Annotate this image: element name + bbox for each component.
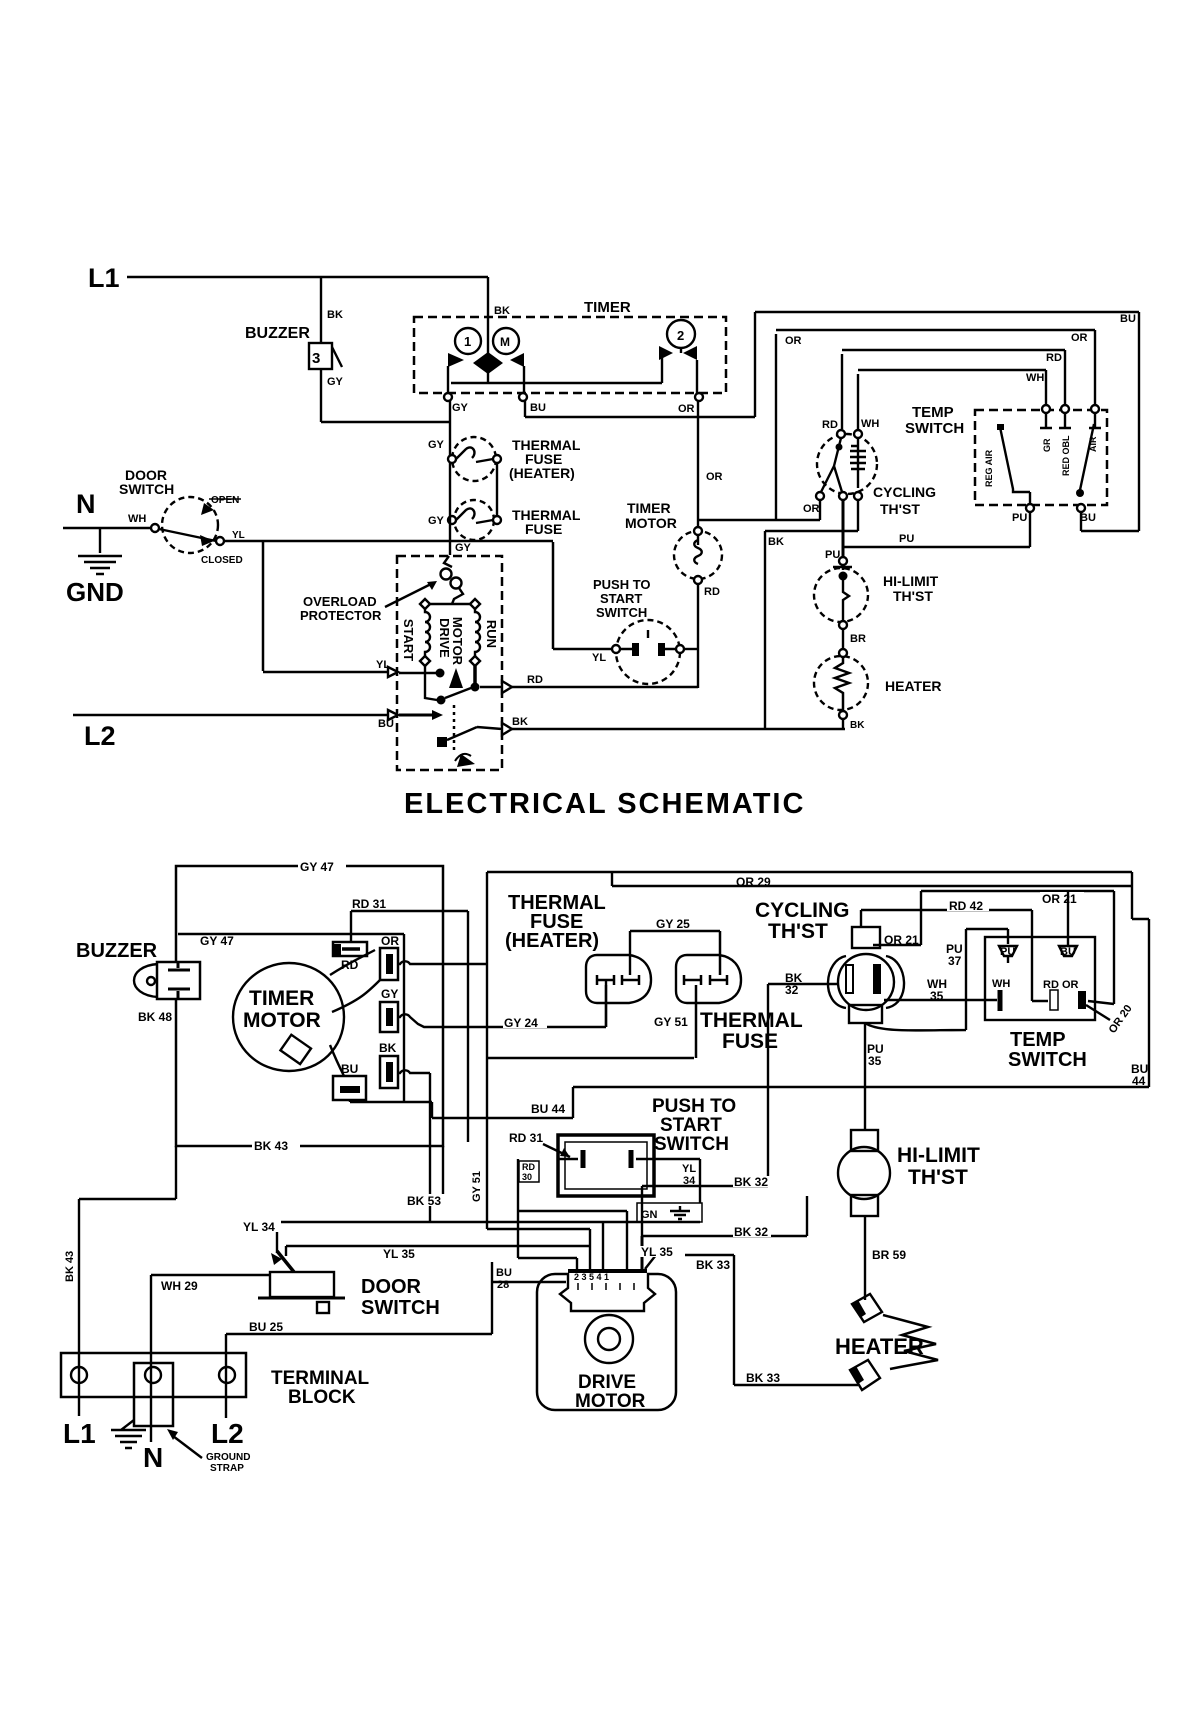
svg-text:RD: RD <box>704 586 720 598</box>
svg-text:PU: PU <box>1012 512 1027 524</box>
svg-text:28: 28 <box>497 1279 509 1291</box>
svg-text:OR: OR <box>381 934 399 948</box>
svg-text:GR: GR <box>1042 438 1052 452</box>
svg-text:YL: YL <box>682 1163 696 1175</box>
svg-text:WH: WH <box>992 978 1010 990</box>
svg-text:BK: BK <box>850 720 865 731</box>
svg-text:BK 32: BK 32 <box>734 1225 768 1239</box>
svg-text:3: 3 <box>312 350 320 367</box>
svg-text:RD: RD <box>822 419 838 431</box>
svg-text:BU: BU <box>378 718 394 730</box>
svg-text:OR 20: OR 20 <box>1107 1003 1135 1036</box>
svg-text:TH'ST: TH'ST <box>893 588 933 604</box>
svg-text:WH: WH <box>1026 372 1044 384</box>
svg-text:MOTOR: MOTOR <box>625 515 677 531</box>
svg-text:RD: RD <box>1046 352 1062 364</box>
svg-text:RD 31: RD 31 <box>352 897 386 911</box>
svg-text:2 3 5 4 1: 2 3 5 4 1 <box>574 1272 609 1282</box>
svg-text:TH'ST: TH'ST <box>768 920 828 943</box>
svg-text:WH 29: WH 29 <box>161 1279 198 1293</box>
svg-text:DRIVE: DRIVE <box>437 618 452 658</box>
svg-text:YL: YL <box>376 659 390 671</box>
svg-text:SWITCH: SWITCH <box>361 1297 440 1319</box>
svg-text:RD OR: RD OR <box>1043 979 1079 991</box>
svg-text:L2: L2 <box>84 721 116 751</box>
svg-text:OR: OR <box>785 335 802 347</box>
svg-text:HI-LIMIT: HI-LIMIT <box>883 573 939 589</box>
svg-text:RD: RD <box>341 958 359 972</box>
svg-text:BU: BU <box>1080 512 1096 524</box>
svg-text:BUZZER: BUZZER <box>245 325 310 342</box>
svg-text:TERMINAL: TERMINAL <box>271 1368 370 1389</box>
svg-text:YL 34: YL 34 <box>243 1220 275 1234</box>
svg-text:START: START <box>600 591 642 606</box>
svg-text:L2: L2 <box>211 1418 244 1449</box>
svg-text:GY 24: GY 24 <box>504 1016 538 1030</box>
svg-text:TH'ST: TH'ST <box>880 501 920 517</box>
svg-text:OR: OR <box>1071 332 1088 344</box>
svg-text:WH: WH <box>861 418 879 430</box>
svg-text:N: N <box>76 489 96 519</box>
svg-text:GY 51: GY 51 <box>654 1015 688 1029</box>
svg-text:BU: BU <box>1120 313 1136 325</box>
svg-text:HEATER: HEATER <box>835 1334 924 1359</box>
svg-text:YL: YL <box>232 530 245 541</box>
svg-text:STRAP: STRAP <box>210 1463 244 1474</box>
svg-text:MOTOR: MOTOR <box>450 617 465 666</box>
svg-text:FUSE: FUSE <box>722 1030 778 1053</box>
svg-text:1: 1 <box>464 334 471 349</box>
svg-text:CLOSED: CLOSED <box>201 555 243 566</box>
svg-text:RD: RD <box>527 674 543 686</box>
svg-text:BK: BK <box>768 536 784 548</box>
svg-text:BR: BR <box>850 633 866 645</box>
svg-text:SWITCH: SWITCH <box>654 1134 729 1155</box>
svg-text:PUSH TO: PUSH TO <box>593 577 651 592</box>
svg-text:ELECTRICAL SCHEMATIC: ELECTRICAL SCHEMATIC <box>404 788 805 820</box>
svg-text:TIMER: TIMER <box>249 987 314 1010</box>
svg-text:DRIVE: DRIVE <box>578 1372 636 1393</box>
svg-text:MOTOR: MOTOR <box>243 1009 321 1032</box>
svg-text:TIMER: TIMER <box>627 500 671 516</box>
svg-text:OVERLOAD: OVERLOAD <box>303 594 377 609</box>
svg-text:REG AIR: REG AIR <box>984 449 994 487</box>
svg-text:BK 33: BK 33 <box>746 1371 780 1385</box>
svg-text:BU: BU <box>341 1062 358 1076</box>
svg-text:OR: OR <box>678 403 695 415</box>
svg-text:RD 42: RD 42 <box>949 899 983 913</box>
svg-text:GY: GY <box>452 402 469 414</box>
svg-text:BK 43: BK 43 <box>64 1251 76 1282</box>
svg-text:YL 35: YL 35 <box>383 1247 415 1261</box>
svg-text:BK 48: BK 48 <box>138 1010 172 1024</box>
svg-text:HI-LIMIT: HI-LIMIT <box>897 1144 980 1167</box>
svg-text:YL 35: YL 35 <box>641 1245 673 1259</box>
svg-text:BK: BK <box>494 305 510 317</box>
svg-text:N: N <box>143 1442 163 1473</box>
svg-text:BK 53: BK 53 <box>407 1194 441 1208</box>
svg-text:PU: PU <box>899 533 914 545</box>
svg-text:BU: BU <box>530 402 546 414</box>
svg-text:2: 2 <box>677 328 684 343</box>
svg-text:PUSH TO: PUSH TO <box>652 1096 736 1117</box>
svg-text:BU 25: BU 25 <box>249 1320 283 1334</box>
svg-text:TEMP: TEMP <box>1010 1029 1066 1051</box>
svg-text:L1: L1 <box>88 263 120 293</box>
svg-text:44: 44 <box>1132 1074 1146 1088</box>
svg-text:OPEN: OPEN <box>211 495 239 506</box>
svg-text:YL: YL <box>592 652 606 664</box>
svg-text:SWITCH: SWITCH <box>905 420 964 437</box>
svg-text:BK 33: BK 33 <box>696 1258 730 1272</box>
svg-text:GROUND: GROUND <box>206 1452 250 1463</box>
svg-text:34: 34 <box>683 1175 696 1187</box>
svg-text:BU 44: BU 44 <box>531 1102 565 1116</box>
svg-text:START: START <box>660 1115 722 1136</box>
svg-text:RED OBL: RED OBL <box>1061 435 1071 476</box>
svg-text:35: 35 <box>868 1054 882 1068</box>
svg-text:CYCLING: CYCLING <box>755 899 850 922</box>
svg-text:GY 47: GY 47 <box>300 860 334 874</box>
svg-text:FUSE: FUSE <box>525 521 562 537</box>
svg-text:GY 51: GY 51 <box>471 1171 483 1202</box>
svg-text:30: 30 <box>522 1172 532 1182</box>
svg-text:GY: GY <box>381 987 398 1001</box>
svg-text:SWITCH: SWITCH <box>1008 1049 1087 1071</box>
svg-text:HEATER: HEATER <box>885 678 942 694</box>
svg-text:RD: RD <box>522 1162 535 1172</box>
svg-text:THERMAL: THERMAL <box>700 1009 803 1032</box>
svg-text:MOTOR: MOTOR <box>575 1391 646 1412</box>
svg-text:OR: OR <box>803 503 820 515</box>
svg-text:START: START <box>401 619 416 661</box>
svg-text:OR: OR <box>706 471 723 483</box>
svg-text:GY: GY <box>428 515 445 527</box>
svg-text:GY 25: GY 25 <box>656 917 690 931</box>
svg-text:DOOR: DOOR <box>361 1276 422 1298</box>
svg-text:M: M <box>500 335 510 349</box>
svg-text:BK: BK <box>379 1041 397 1055</box>
svg-text:GY: GY <box>327 376 344 388</box>
svg-text:BK 43: BK 43 <box>254 1139 288 1153</box>
svg-text:BR 59: BR 59 <box>872 1248 906 1262</box>
svg-text:BK: BK <box>327 309 343 321</box>
svg-text:PU: PU <box>825 549 840 561</box>
svg-text:WH: WH <box>128 513 146 525</box>
svg-text:TEMP: TEMP <box>912 404 954 421</box>
svg-text:(HEATER): (HEATER) <box>509 465 575 481</box>
svg-text:BK: BK <box>512 716 528 728</box>
svg-text:GY: GY <box>428 439 445 451</box>
svg-text:RUN: RUN <box>484 620 499 648</box>
svg-text:PROTECTOR: PROTECTOR <box>300 608 382 623</box>
svg-text:SWITCH: SWITCH <box>596 605 647 620</box>
svg-text:SWITCH: SWITCH <box>119 481 174 497</box>
svg-text:TH'ST: TH'ST <box>908 1166 968 1189</box>
svg-text:37: 37 <box>948 954 962 968</box>
svg-text:CYCLING: CYCLING <box>873 484 936 500</box>
svg-text:GY: GY <box>455 542 472 554</box>
svg-text:BLOCK: BLOCK <box>288 1387 356 1408</box>
svg-text:35: 35 <box>930 989 944 1003</box>
svg-text:BUZZER: BUZZER <box>76 940 158 962</box>
svg-text:GY 47: GY 47 <box>200 934 234 948</box>
svg-text:BU: BU <box>496 1267 512 1279</box>
svg-text:OR 21: OR 21 <box>1042 892 1077 906</box>
svg-text:GN: GN <box>641 1209 658 1221</box>
svg-text:BK 32: BK 32 <box>734 1175 768 1189</box>
svg-text:(HEATER): (HEATER) <box>505 930 599 952</box>
svg-text:RD 31: RD 31 <box>509 1131 543 1145</box>
svg-text:TIMER: TIMER <box>584 299 631 316</box>
svg-text:GND: GND <box>66 577 124 607</box>
svg-text:L1: L1 <box>63 1418 96 1449</box>
